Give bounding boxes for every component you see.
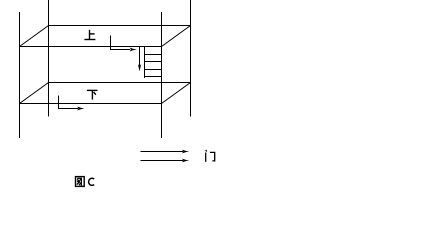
text xia (down): [87, 90, 98, 99]
upper floor left diagonal: [20, 26, 49, 47]
column back-right: [190, 0, 192, 117]
stair descent arrow shaft: [139, 47, 141, 67]
stairs rung 2: [145, 61, 162, 63]
lower walk arrow shaft: [59, 96, 79, 109]
stairs left rail: [144, 47, 146, 79]
lower floor left diagonal: [20, 83, 49, 104]
lower floor bottom edge: [20, 103, 162, 105]
text tu (figure) box: [76, 177, 85, 187]
stairs rung 3: [145, 69, 162, 71]
door arrow top head: [182, 150, 189, 154]
upper walk arrow head: [130, 48, 137, 52]
door arrow bottom head: [182, 159, 189, 163]
text shang (up): [84, 30, 95, 40]
stairs rung 4: [145, 76, 162, 78]
lower walk arrow head: [77, 107, 84, 111]
text letter C: [89, 178, 95, 185]
door arrow bottom shaft: [141, 160, 184, 162]
column front-left: [19, 12, 21, 138]
text men (door): [206, 150, 215, 162]
stairs rung 1: [145, 54, 162, 56]
column back-left: [48, 0, 50, 117]
upper floor top edge: [49, 25, 191, 27]
upper floor right diagonal: [162, 26, 191, 47]
lower floor right diagonal: [162, 83, 191, 104]
upper floor bottom edge: [20, 46, 162, 48]
upper walk arrow shaft: [111, 36, 131, 50]
lower floor top edge: [49, 82, 191, 84]
door arrow top shaft: [141, 151, 184, 153]
column front-right: [161, 12, 163, 138]
stair descent arrow head: [138, 64, 141, 71]
